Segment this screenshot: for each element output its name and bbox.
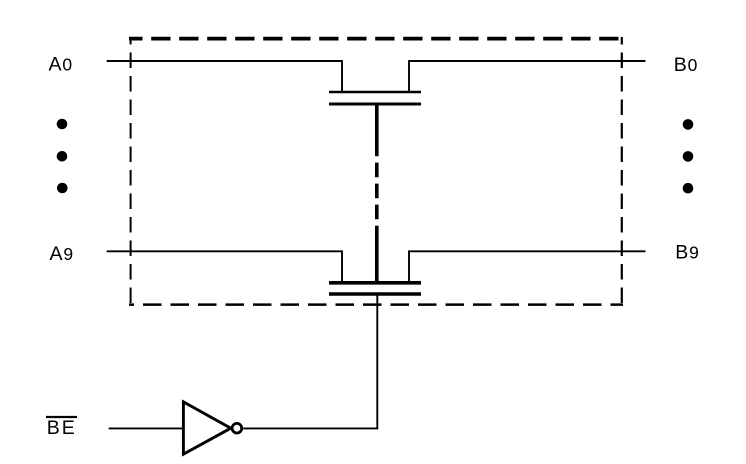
dashed enclosure box bottom edge: [129, 303, 623, 306]
transistor Q1 gate bar: [329, 103, 421, 106]
wire gate bus solid upper segment: [375, 104, 379, 156]
wire A0 horizontal: [107, 60, 342, 62]
wire A0 lead into Q1: [341, 60, 343, 92]
svg-text:A9: A9: [50, 243, 74, 265]
dashed enclosure box top edge: [129, 37, 623, 41]
svg-text:A0: A0: [49, 54, 73, 76]
wire BE input: [109, 427, 182, 429]
wire A9 lead into Q2: [341, 250, 343, 282]
wire gate bus dashed middle segment: [375, 163, 379, 220]
dashed enclosure box right edge: [621, 37, 623, 306]
wire Q2 gate lead down: [376, 294, 378, 428]
inverter U1 triangle: [183, 402, 230, 454]
transistor Q2 gate bar: [329, 292, 421, 296]
svg-text:B9: B9: [675, 241, 699, 263]
wire B9 horizontal: [409, 250, 646, 252]
transistor Q2 channel bar: [329, 281, 421, 285]
inverter U1 output bubble: [232, 423, 242, 433]
wire A9 horizontal: [107, 250, 342, 252]
ellipsis dots B-side: [683, 119, 694, 193]
node label BE (active low, overline): [46, 416, 77, 418]
wire B0 lead out of Q1: [408, 60, 410, 92]
wire inverter output to gate lead: [243, 427, 378, 429]
ellipsis dots A-side: [57, 119, 68, 194]
wire B0 horizontal: [409, 60, 646, 62]
dashed enclosure box left edge: [130, 37, 132, 306]
wire B9 lead out of Q2: [408, 250, 410, 282]
transistor Q1 channel bar: [329, 91, 421, 94]
wire gate bus solid lower segment: [375, 226, 379, 283]
svg-text:B0: B0: [674, 54, 698, 76]
svg-text:BE: BE: [47, 417, 77, 439]
